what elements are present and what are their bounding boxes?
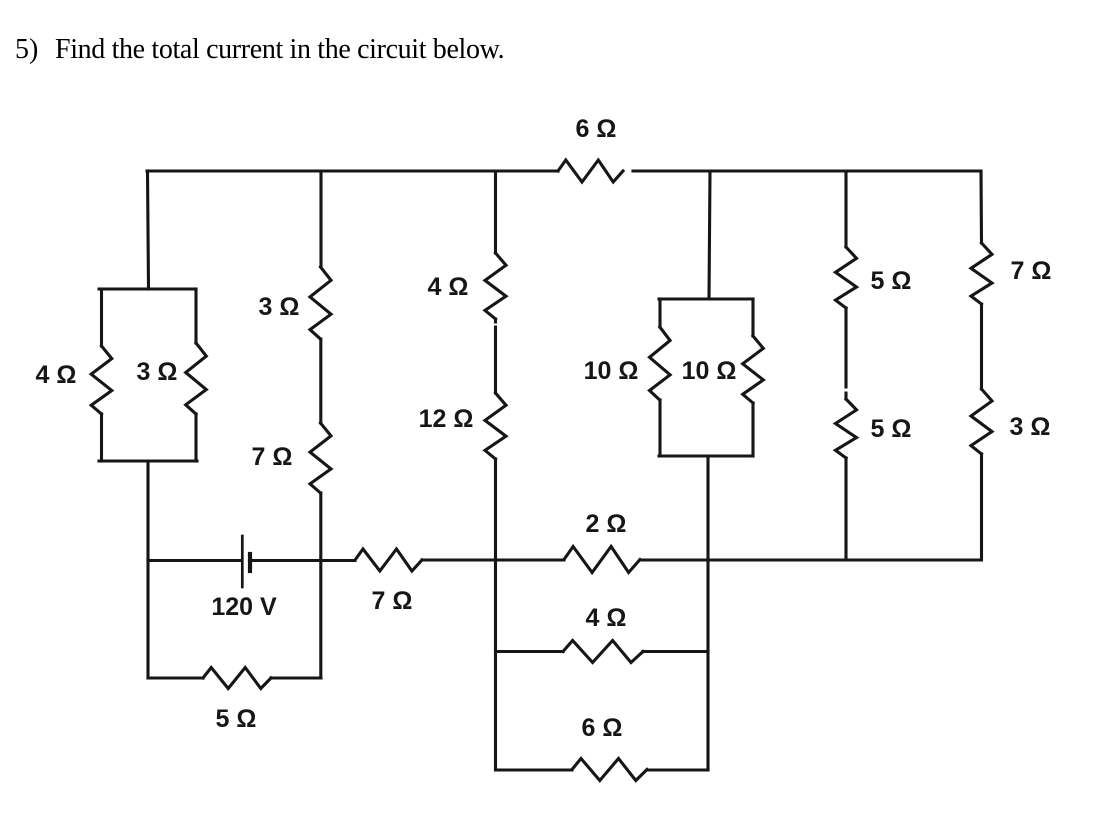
svg-text:4 Ω: 4 Ω	[36, 361, 77, 389]
wire box2 top edge	[659, 297, 753, 300]
wire bottom-left rail right segment	[271, 676, 321, 679]
wire box1 left side upper	[100, 289, 103, 346]
svg-text:4 Ω: 4 Ω	[586, 604, 627, 632]
wire V6 between 7Ω and 3Ω	[980, 304, 983, 389]
svg-text:10 Ω: 10 Ω	[682, 357, 737, 385]
wire V4 from box2 bottom to 6Ω row	[706, 456, 709, 770]
resistor R4a 4Ω left branch of box1	[91, 346, 112, 414]
svg-text:7 Ω: 7 Ω	[1011, 257, 1052, 285]
wire V6 right edge from top rail down	[979, 171, 983, 243]
resistor R_6top 6Ω inline on top rail	[558, 160, 623, 182]
wire box2 bottom edge	[659, 454, 753, 457]
resistor R3a 3Ω right branch of box1	[186, 343, 207, 414]
wire box1 left side lower	[100, 414, 103, 461]
resistor R6b 6Ω inline on bottom row	[572, 759, 647, 781]
svg-text:2 Ω: 2 Ω	[586, 510, 627, 538]
wire V4 from top rail to box2	[709, 171, 710, 299]
svg-text:3 Ω: 3 Ω	[259, 293, 300, 321]
wire 6Ω row right segment	[647, 768, 708, 771]
svg-text:3 Ω: 3 Ω	[1010, 413, 1051, 441]
wire V3 from top rail down	[494, 171, 497, 253]
resistor R10b 10Ω right branch of box2	[743, 336, 764, 403]
resistor R7c 7Ω upper on right edge	[971, 243, 992, 304]
wire bottom-left rail left segment	[148, 676, 203, 679]
svg-text:7 Ω: 7 Ω	[252, 443, 293, 471]
svg-text:12 Ω: 12 Ω	[419, 405, 474, 433]
wire top rail left segment	[147, 169, 558, 172]
wire mid rail battery to 7Ω	[250, 559, 355, 562]
resistor R4c 4Ω inline on middle row	[563, 641, 643, 663]
resistor R5e 5Ω on bottom-left rail	[203, 668, 271, 689]
svg-text:120 V: 120 V	[211, 593, 277, 621]
wire 4Ω row left segment	[496, 650, 564, 653]
resistor R5b 5Ω lower on branch V5	[836, 399, 857, 458]
wire box2 left side upper	[658, 299, 661, 327]
svg-text:3 Ω: 3 Ω	[137, 358, 178, 386]
resistor R3b 3Ω on branch V2	[310, 267, 331, 339]
wire mid rail 7Ω to 2Ω	[422, 558, 564, 561]
svg-text:6 Ω: 6 Ω	[576, 115, 617, 143]
resistor R5a 5Ω upper on branch V5	[836, 247, 857, 308]
battery B1 long plate (+)	[241, 536, 244, 587]
wire 4Ω row right segment	[643, 650, 708, 653]
wire V2 mid rail to bottom-left rail	[319, 560, 322, 678]
svg-text:5 Ω: 5 Ω	[871, 267, 912, 295]
wire box1 bottom edge	[99, 459, 197, 462]
wire V5 between the two 5Ω (pen lift gap)	[844, 308, 847, 399]
wire V1 mid rail to bottom-left rail	[146, 560, 149, 678]
svg-text:5 Ω: 5 Ω	[216, 705, 257, 733]
wire V2 between 3Ω and 7Ω	[319, 339, 322, 423]
resistor R2 2Ω inline on mid rail	[564, 547, 640, 573]
resistor R3c 3Ω lower on right edge	[971, 389, 992, 454]
svg-text:5 Ω: 5 Ω	[871, 415, 912, 443]
resistor R4b 4Ω on branch V3	[485, 253, 506, 319]
wire box1 right side lower	[194, 414, 197, 461]
wire V6 from 3Ω to mid rail	[980, 454, 983, 560]
wire box1 top edge	[99, 287, 196, 290]
problem number "5)"	[15, 34, 38, 66]
resistor R12 12Ω on branch V3	[485, 393, 506, 459]
wire V1 drop from top rail to parallel box	[148, 171, 149, 289]
svg-text:4 Ω: 4 Ω	[428, 273, 469, 301]
wire mid rail 2Ω to right edge	[640, 558, 981, 561]
resistor R10a 10Ω left branch of box2	[650, 327, 671, 400]
resistor R7b 7Ω inline on mid rail	[355, 549, 422, 571]
resistor R7a 7Ω on branch V2	[310, 423, 331, 493]
wire box2 right side upper	[751, 299, 754, 336]
wire box2 right side lower	[751, 403, 754, 456]
wire V2 from 7Ω to mid rail	[319, 493, 322, 560]
wire 6Ω row left segment	[496, 768, 573, 771]
svg-text:6 Ω: 6 Ω	[582, 714, 623, 742]
wire V3 from 12Ω down to 6Ω row	[494, 459, 497, 770]
wire V5 from 5Ω to mid rail	[844, 458, 847, 560]
problem title text	[55, 34, 504, 66]
svg-text:10 Ω: 10 Ω	[584, 357, 639, 385]
battery B1 short plate (-)	[248, 554, 252, 571]
wire V5 from top rail down	[844, 171, 847, 247]
wire box1 right side upper	[194, 289, 197, 343]
wire V2 from top rail down	[319, 171, 322, 267]
wire V3 between 4Ω and 12Ω (pen lift gap)	[494, 319, 497, 393]
wire V1 from box1 bottom to mid rail	[146, 461, 149, 560]
wire box2 left side lower	[658, 400, 661, 456]
wire mid rail from V1 to battery	[148, 559, 241, 562]
wire top rail right segment	[633, 169, 981, 172]
svg-text:7 Ω: 7 Ω	[372, 587, 413, 615]
